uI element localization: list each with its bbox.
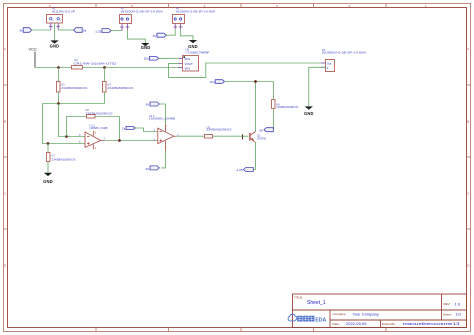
svg-text:-1.25: -1.25 bbox=[236, 168, 243, 172]
resistor U4 bbox=[103, 68, 134, 104]
svg-text:LM358N_C6488: LM358N_C6488 bbox=[90, 126, 109, 130]
net flag 1k bbox=[122, 126, 135, 130]
wire VCC rail to R1 bbox=[35, 67, 72, 69]
svg-text:Out: Out bbox=[144, 57, 149, 61]
junction feedback right bbox=[118, 139, 121, 142]
svg-text:GND: GND bbox=[188, 44, 198, 49]
resistor R1 bbox=[72, 58, 118, 69]
wire down to U8 bbox=[273, 82, 275, 100]
wire flag to P2 pin1 bbox=[111, 30, 122, 32]
svg-text:Company:: Company: bbox=[333, 312, 347, 316]
svg-text:A: A bbox=[4, 47, 6, 51]
net flag 2k right bbox=[74, 28, 87, 33]
wire U5 to Q1 base bbox=[213, 135, 249, 137]
svg-text:GND: GND bbox=[304, 111, 314, 116]
wire P4 pin2 to ground bbox=[309, 67, 326, 106]
wire P1 pin2 to flag 2k right bbox=[58, 29, 73, 31]
feedback loop with resistor U6 bbox=[67, 117, 88, 137]
ground under P4 bbox=[304, 106, 314, 115]
connector P1 bbox=[47, 6, 76, 30]
svg-text:WJ126V-5.0-2P: WJ126V-5.0-2P bbox=[52, 9, 75, 13]
wire Out net bbox=[225, 81, 274, 83]
svg-text:LM358N_C6488: LM358N_C6488 bbox=[149, 117, 176, 121]
junction Out/Q1 bbox=[254, 80, 257, 83]
svg-text:WJ500V-5.08-2P-14.00A: WJ500V-5.08-2P-14.00A bbox=[322, 51, 366, 55]
svg-text:GND: GND bbox=[43, 179, 53, 184]
svg-text:ADJ: ADJ bbox=[185, 57, 191, 61]
wire flag 3V to U1.2 V+ pin bbox=[159, 104, 165, 125]
svg-text:A: A bbox=[467, 47, 469, 51]
svg-text:WJ500V-5.08-2P-14.00A: WJ500V-5.08-2P-14.00A bbox=[176, 9, 215, 13]
wire flag3V to P3 pin1 bbox=[166, 29, 175, 35]
ground under P3 bbox=[188, 40, 198, 49]
junction U7 top bbox=[47, 142, 50, 145]
svg-text:U3: U3 bbox=[61, 83, 65, 87]
connector P2 bbox=[120, 6, 164, 30]
svg-text:VIN: VIN bbox=[185, 67, 190, 71]
wire flag2k to P1 pin1 bbox=[32, 29, 51, 31]
wire left drop to plus input bbox=[43, 104, 86, 144]
net flag 3V top (U1.2 V+) bbox=[146, 102, 160, 107]
wire P3 pin2 to ground bbox=[181, 29, 193, 40]
VCC bbox=[29, 47, 38, 68]
op-amp U1.1 bbox=[79, 123, 108, 150]
svg-text:2343BA5029KOS: 2343BA5029KOS bbox=[276, 105, 298, 109]
resistor U7 bbox=[47, 144, 76, 173]
svg-text:Sheet_1: Sheet_1 bbox=[307, 300, 326, 306]
P3 pin 1 bbox=[173, 24, 182, 29]
svg-text:2022-09-09: 2022-09-09 bbox=[346, 321, 367, 326]
svg-text:WJ500V-5.08-2P-14.00A: WJ500V-5.08-2P-14.00A bbox=[121, 9, 163, 13]
net flag Out (lower) bbox=[210, 80, 225, 85]
regulator U9 bbox=[179, 48, 211, 71]
net flag 3V bottom (U1.2 V-) bbox=[146, 166, 160, 171]
junction VCC/U3 bbox=[57, 66, 60, 69]
svg-text:Drawn By:: Drawn By: bbox=[382, 322, 396, 326]
P1 pin 2 bbox=[57, 23, 59, 30]
wire VOUT loop to P4 bbox=[169, 63, 322, 77]
wire U6 right down to output bbox=[95, 117, 120, 141]
net flag -1.25 (Q1) bbox=[236, 168, 254, 173]
P1 pin 1 bbox=[49, 23, 60, 30]
svg-text:1/1: 1/1 bbox=[456, 312, 462, 317]
svg-text:B: B bbox=[467, 120, 469, 124]
net flag 3V (P3) bbox=[153, 33, 167, 38]
svg-text:Out: Out bbox=[210, 80, 215, 84]
svg-text:B: B bbox=[4, 120, 6, 124]
wire Q1 emitter up to Out node bbox=[255, 82, 257, 132]
wire flag 1k to U1.2 minus bbox=[135, 128, 158, 132]
wire R1 to VIN bbox=[83, 67, 179, 69]
svg-text:CR1-8W-1Ω±5%-OT52: CR1-8W-1Ω±5%-OT52 bbox=[74, 61, 118, 65]
svg-text:2343BA5009KOS: 2343BA5009KOS bbox=[107, 86, 133, 90]
junction U3 bottom bbox=[57, 102, 60, 105]
svg-text:EDA: EDA bbox=[315, 317, 326, 323]
svg-text:1k: 1k bbox=[122, 126, 126, 130]
wire U1.1 out to U1.2 plus bbox=[105, 140, 158, 142]
net flag -1.25 bbox=[94, 29, 111, 34]
svg-text:-1.25: -1.25 bbox=[94, 30, 101, 34]
P3 pin 2 bbox=[180, 24, 182, 29]
wire flag Out to ADJ bbox=[159, 57, 179, 59]
wire P2 pin2 to ground bbox=[127, 30, 145, 44]
transistor Q1 bbox=[250, 132, 267, 143]
svg-text:2343BA5029KOS: 2343BA5029KOS bbox=[207, 128, 232, 132]
rail y103.5 bbox=[43, 103, 105, 105]
svg-text:REV:: REV: bbox=[444, 302, 451, 306]
resistor U8 bbox=[272, 100, 299, 130]
svg-text:GND: GND bbox=[141, 45, 151, 50]
connector P3 bbox=[173, 6, 216, 29]
svg-text:GND: GND bbox=[50, 43, 60, 48]
P2 pin 2 bbox=[126, 24, 128, 30]
net flag 2k left bbox=[19, 28, 31, 33]
svg-text:Out: Out bbox=[327, 61, 332, 65]
ground under P2 bbox=[141, 43, 151, 50]
junction rail/U4 bbox=[103, 66, 106, 69]
net flag 3V (U8) bbox=[259, 128, 273, 133]
resistor U5 bbox=[205, 126, 232, 139]
ground under P1 bbox=[50, 23, 60, 48]
net flag Out (ADJ) bbox=[144, 57, 159, 61]
svg-text:2k: 2k bbox=[83, 29, 87, 33]
svg-text:TITLE:: TITLE: bbox=[294, 296, 303, 300]
svg-text:Sheet:: Sheet: bbox=[443, 312, 452, 316]
resistor U6 bbox=[86, 108, 113, 118]
wire U1.2 out to U5 bbox=[177, 135, 206, 137]
svg-text:Your Company: Your Company bbox=[353, 311, 379, 316]
svg-text:2k: 2k bbox=[19, 28, 23, 32]
op-amp U1.2 bbox=[149, 114, 179, 151]
logo bbox=[288, 314, 326, 323]
svg-text:VOUT: VOUT bbox=[185, 62, 194, 66]
svg-text:2343BA5029KOS: 2343BA5029KOS bbox=[61, 86, 87, 90]
wire U3 bottom to minus input bbox=[59, 104, 86, 137]
resistor U3 bbox=[57, 68, 88, 104]
svg-text:U7: U7 bbox=[52, 154, 56, 158]
P2 pin 1 bbox=[120, 24, 129, 31]
title block bbox=[288, 294, 466, 328]
svg-text:2N3792: 2N3792 bbox=[257, 137, 267, 141]
svg-text:LT1086CT#PBF: LT1086CT#PBF bbox=[186, 51, 211, 55]
ground under U7 bbox=[43, 173, 53, 184]
wire U1.2 V- to flag bbox=[161, 151, 166, 168]
wire Q1 collector down bbox=[253, 143, 255, 170]
junction feedback left bbox=[65, 135, 68, 138]
connector P4 bbox=[321, 48, 366, 72]
svg-text:manuelbencosme13: manuelbencosme13 bbox=[403, 321, 461, 326]
svg-text:VCC: VCC bbox=[29, 47, 38, 52]
Q1 base pin tick bbox=[242, 134, 244, 139]
svg-text:Date:: Date: bbox=[333, 322, 340, 326]
svg-text:U4: U4 bbox=[107, 83, 111, 87]
svg-text:2343BA5029KOS: 2343BA5029KOS bbox=[52, 157, 76, 161]
svg-text:1.0: 1.0 bbox=[455, 301, 461, 306]
